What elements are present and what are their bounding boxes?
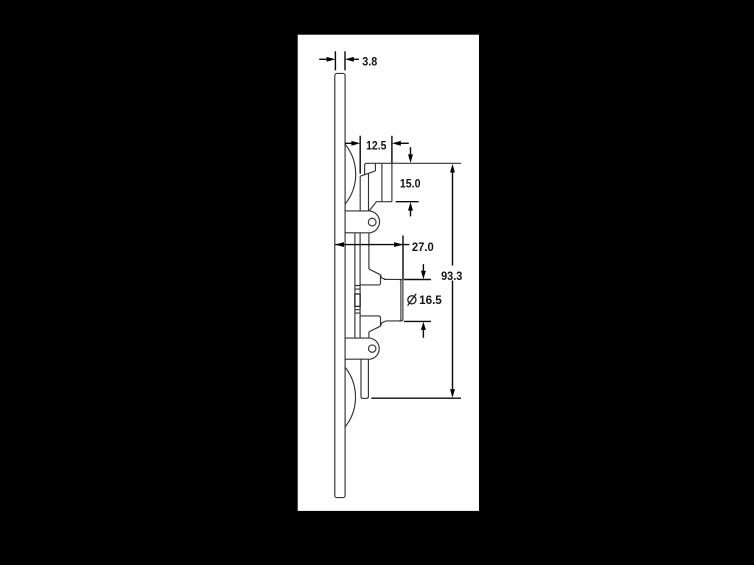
pole plate upper	[360, 275, 381, 285]
lower lug bottom line	[345, 358, 370, 360]
svg-text:27.0: 27.0	[412, 240, 434, 254]
dim Ø16.5 top arrow	[422, 264, 424, 271]
upper lug rounded end	[369, 211, 379, 233]
svg-text:12.5: 12.5	[366, 139, 387, 153]
dim text diameter symbol	[408, 296, 416, 304]
magnet top line	[384, 279, 403, 321]
cone diagonal upper	[369, 269, 380, 275]
frame edge upper vertical	[368, 233, 370, 269]
dim 3.8 right arrow	[353, 58, 359, 60]
bracket flange vertical B	[391, 163, 393, 201]
bracket lower chamfer and step	[369, 202, 392, 211]
upper surround arc	[345, 144, 356, 205]
dim 15.0 upper arrow	[410, 147, 412, 155]
beak lower	[380, 321, 386, 326]
dim Ø16.5 top reference	[404, 279, 431, 281]
dim 3.8 extension lines	[335, 51, 345, 70]
bracket flange vertical A	[381, 163, 383, 201]
dim 93.3 down arrow	[450, 389, 455, 398]
dim Ø16.5 bottom arrow	[422, 329, 424, 338]
dim 93.3 line lower segment	[452, 281, 454, 391]
cone diagonal lower	[369, 326, 380, 332]
dim 93.3 up arrow	[450, 164, 455, 173]
upper lug bottom line	[345, 232, 370, 234]
dim 27.0 extension line	[402, 236, 404, 280]
dim 12.5 extension lines	[360, 136, 392, 174]
dim 12.5 right arrow	[400, 142, 409, 144]
dim 93.3 line upper segment	[452, 172, 454, 266]
beak upper	[380, 275, 386, 280]
white drawing sheet	[298, 35, 479, 511]
svg-text:93.3: 93.3	[441, 269, 462, 283]
dim 15.0 reference line	[396, 201, 419, 203]
svg-text:16.5: 16.5	[419, 293, 442, 307]
dim 3.8 left arrow	[319, 58, 327, 60]
upper lug top line	[345, 210, 369, 212]
ladder rungs	[355, 286, 360, 314]
frame edge lower vertical	[368, 332, 370, 338]
lower lug rounded end	[369, 338, 379, 359]
bracket left vertical	[359, 176, 361, 211]
svg-text:3.8: 3.8	[362, 55, 377, 69]
frame inner vertical A	[354, 233, 356, 338]
svg-text:15.0: 15.0	[400, 177, 421, 191]
bracket small vertical	[374, 163, 376, 171]
lower lug hole	[369, 345, 376, 352]
bottom tab	[361, 359, 368, 398]
lower surround arc	[345, 367, 356, 427]
terminal box	[355, 294, 360, 306]
dim 27.0 line	[335, 244, 409, 246]
pole plate lower	[360, 316, 381, 326]
upper lug hole	[368, 218, 376, 226]
bracket top edge / 93.3 top reference	[365, 163, 461, 174]
bracket inner vertical	[368, 174, 370, 211]
dim 12.5 left arrow	[345, 142, 352, 144]
lower lug top line	[345, 337, 370, 339]
bracket chamfer diagonal	[360, 171, 375, 176]
frame inner vertical B	[359, 233, 361, 338]
baffle plate panel	[335, 73, 345, 497]
dim 93.3 bottom reference line	[371, 397, 461, 399]
magnet inner face line	[399, 279, 401, 321]
dim 15.0 lower arrow	[410, 210, 412, 217]
dim Ø16.5 bottom reference	[404, 320, 431, 322]
